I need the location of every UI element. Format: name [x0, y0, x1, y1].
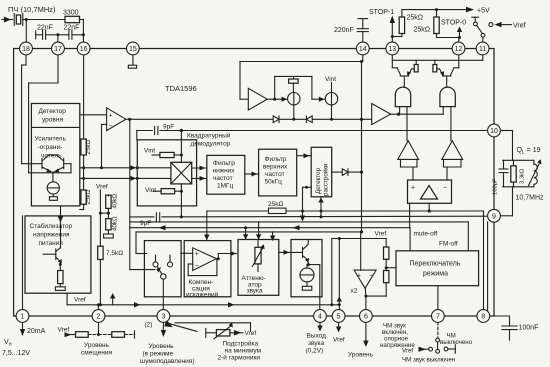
pin 3	[157, 310, 170, 323]
svg-text:FM-off: FM-off	[439, 241, 458, 248]
pin 8	[477, 310, 490, 323]
wire pin18 to limiter input	[25, 55, 27, 65]
feedback loop wire	[239, 62, 241, 100]
svg-text:13: 13	[388, 46, 396, 53]
second vertical near pin8	[487, 222, 489, 316]
svg-text:частот: частот	[265, 171, 285, 178]
attenuator feed line	[136, 231, 362, 233]
Vref loop line	[332, 238, 386, 240]
svg-text:12: 12	[455, 46, 463, 53]
Vref rail from stabilizer	[66, 293, 68, 305]
svg-text:5: 5	[337, 314, 341, 321]
svg-text:Vref: Vref	[245, 330, 257, 337]
resistor 25k upper	[83, 55, 85, 139]
svg-text:220nF: 220nF	[334, 27, 354, 34]
svg-text:TDA1596: TDA1596	[165, 84, 197, 93]
block output stage	[291, 240, 322, 297]
audio input into switch box	[136, 253, 147, 255]
svg-text:25kΩ: 25kΩ	[85, 190, 92, 205]
svg-text:на минимум: на минимум	[225, 348, 262, 355]
svg-text:8: 8	[481, 314, 485, 321]
block voltage stabilizer	[25, 216, 91, 293]
current source I3	[325, 93, 337, 105]
pin5 Vref arrow	[338, 322, 340, 328]
block high-pass filter 50kHz	[259, 149, 297, 196]
STOP-0 arrow	[458, 36, 461, 39]
compensation output	[217, 257, 220, 260]
comparator output	[428, 203, 430, 211]
svg-text:Квадратурный: Квадратурный	[187, 132, 231, 140]
svg-text:Детектор: Детектор	[39, 108, 67, 115]
svg-text:15: 15	[129, 46, 137, 53]
trim resistor above I2	[289, 79, 299, 83]
svg-text:Уровень: Уровень	[149, 343, 175, 350]
svg-text:100pF: 100pF	[493, 178, 499, 195]
svg-text:40kΩ: 40kΩ	[112, 216, 119, 231]
resistor 25k (STOP-0 pullup)	[435, 8, 438, 11]
svg-text:Vint: Vint	[144, 148, 155, 155]
svg-text:−: −	[109, 123, 113, 130]
pin10 rail	[137, 130, 488, 132]
pin 2	[92, 310, 105, 323]
wire tank to pin 9	[512, 187, 514, 216]
diode D1	[273, 116, 279, 123]
svg-text:14: 14	[359, 46, 367, 53]
svg-text:Уровень: Уровень	[84, 342, 110, 349]
diode D2	[305, 116, 307, 123]
wire resistor to pin16 column	[80, 19, 84, 21]
svg-text:уровня: уровня	[42, 117, 63, 124]
svg-text:6: 6	[364, 314, 368, 321]
svg-text:9pF: 9pF	[140, 220, 151, 227]
resistor 3300	[65, 16, 80, 22]
resistor in stabilizer	[59, 264, 61, 270]
pin 12	[452, 42, 465, 55]
transistor Q6	[302, 247, 304, 257]
amp A2	[372, 104, 391, 125]
svg-text:Vref: Vref	[96, 184, 108, 191]
svg-text:9pF: 9pF	[163, 124, 174, 131]
resistor Vint upper	[152, 154, 160, 156]
svg-text:Vint: Vint	[145, 187, 156, 194]
svg-text:+: +	[195, 251, 199, 258]
node A	[25, 18, 28, 21]
pin 5	[332, 310, 345, 323]
transistor Q4	[391, 55, 393, 68]
wire pin10 to tank	[500, 130, 512, 132]
svg-text:напряжения: напряжения	[33, 232, 70, 239]
potentiometer network	[205, 328, 207, 337]
pin 7	[432, 310, 445, 323]
tank top bar	[503, 159, 534, 161]
svg-text:25kΩ: 25kΩ	[85, 140, 92, 155]
svg-text:18: 18	[22, 46, 30, 53]
svg-text:11: 11	[479, 46, 486, 53]
resistor 25k (STOP-1 pullup)	[392, 36, 402, 38]
pin14 column	[362, 55, 364, 62]
pin 13	[386, 42, 399, 55]
pin 18	[20, 42, 33, 55]
gate G2	[440, 87, 455, 106]
emitter to pin 4	[308, 264, 319, 266]
FM line	[130, 221, 469, 223]
current source I4	[306, 265, 308, 268]
svg-text:100nF: 100nF	[519, 325, 539, 332]
svg-text:ПЧ (10,7MHz): ПЧ (10,7MHz)	[8, 5, 56, 14]
capacitor 22nF left	[35, 31, 37, 39]
svg-text:Подстройка: Подстройка	[223, 340, 259, 348]
svg-text:Vref: Vref	[333, 337, 345, 344]
input arrow	[4, 17, 11, 23]
svg-text:7,5kΩ: 7,5kΩ	[106, 250, 123, 257]
wire filter to node A	[23, 19, 27, 21]
svg-text:Выход: Выход	[307, 333, 327, 340]
Vref input terminal	[489, 23, 493, 27]
tank bottom bar	[503, 186, 534, 188]
current source I2	[288, 93, 300, 105]
ceramic filter X1	[13, 14, 15, 26]
stairs B1 to comparator	[400, 159, 402, 167]
svg-text:+: +	[357, 273, 361, 280]
block distortion compensation	[184, 241, 231, 297]
svg-text:2-й гармоники: 2-й гармоники	[218, 354, 261, 362]
demod outputs to LPF	[192, 167, 207, 169]
svg-text:+: +	[109, 113, 113, 120]
mute line	[130, 227, 410, 229]
svg-text:STOP-1: STOP-1	[369, 9, 394, 16]
mute drop to attenuator	[244, 226, 247, 229]
stairs B2 to comparator	[443, 159, 445, 167]
svg-text:Усилитель: Усилитель	[35, 136, 67, 143]
pin1 current arrow	[22, 322, 24, 333]
pin2 bias network	[98, 322, 100, 334]
svg-text:Vint: Vint	[325, 76, 336, 83]
block audio attenuator	[238, 240, 279, 296]
svg-text:питания: питания	[39, 240, 64, 247]
pin7 wire	[437, 286, 439, 310]
svg-text:шумоподавления): шумоподавления)	[140, 358, 195, 365]
svg-text:−: −	[195, 263, 199, 270]
svg-text:-ограни-: -ограни-	[38, 144, 63, 151]
pin 16	[77, 42, 90, 55]
svg-text:+5V: +5V	[477, 8, 490, 15]
svg-text:1МГц: 1МГц	[217, 183, 234, 190]
svg-text:7: 7	[436, 314, 440, 321]
svg-text:Vref: Vref	[375, 231, 387, 238]
resistor 3.3k	[513, 160, 515, 166]
amp x2	[354, 270, 376, 288]
pin 1	[16, 310, 29, 323]
svg-text:х2: х2	[351, 288, 358, 295]
svg-text:верхних: верхних	[263, 164, 288, 171]
svg-text:звука: звука	[308, 340, 325, 347]
block demodulator	[137, 140, 196, 206]
svg-text:(в режиме: (в режиме	[143, 351, 174, 358]
arrow LPF to HPF	[245, 173, 259, 175]
svg-text:Vref: Vref	[513, 23, 526, 30]
pin7 mode switch external	[437, 322, 439, 337]
svg-text:17: 17	[54, 46, 62, 53]
capacitor 100pF	[503, 160, 505, 169]
x2 input from audio line	[360, 232, 362, 270]
op-amp A1	[240, 98, 248, 100]
svg-text:22nF: 22nF	[37, 25, 53, 32]
svg-text:25kΩ: 25kΩ	[268, 201, 283, 208]
pin6 level arrow	[365, 322, 367, 343]
pin 6	[360, 310, 373, 323]
svg-text:10: 10	[490, 128, 498, 135]
rail to gates	[391, 113, 444, 115]
block level-detector + limiter	[31, 104, 79, 206]
STOP-1 arrow	[391, 18, 393, 37]
svg-text:−: −	[369, 273, 373, 280]
svg-text:10,7MHz: 10,7MHz	[516, 195, 545, 202]
svg-text:Стабилизатор: Стабилизатор	[30, 222, 73, 230]
svg-text:нижних: нижних	[213, 168, 236, 175]
resistor Vint lower	[153, 190, 161, 192]
wires limiter outputs to demodulator	[80, 167, 138, 169]
mixer X	[171, 162, 192, 184]
comparator block U3	[408, 180, 452, 203]
block low-pass filter 1MHz	[207, 155, 245, 194]
svg-text:Vref: Vref	[402, 348, 413, 355]
capacitor 9pF upper	[153, 128, 160, 133]
buffer triangle B2	[442, 141, 463, 160]
pin5 Vref riser	[338, 239, 340, 310]
pin 15	[126, 42, 139, 55]
diode rail	[130, 118, 372, 120]
pin 17	[52, 42, 65, 55]
block detuning detector (vertical text)	[311, 147, 332, 197]
svg-text:+: +	[411, 185, 415, 192]
svg-text:3,3kΩ: 3,3kΩ	[520, 168, 526, 184]
svg-text:40kΩ: 40kΩ	[112, 194, 119, 209]
node cap junction	[56, 33, 59, 36]
pot adjust link to pin 3	[164, 320, 173, 327]
differential pair Q1 Q2	[41, 158, 43, 168]
inductor variable	[533, 160, 535, 164]
+V cell rail from pin 11	[482, 55, 484, 60]
ground stub	[49, 197, 57, 201]
capacitor 22nF right	[58, 34, 69, 36]
svg-text:выключено: выключено	[440, 339, 473, 346]
svg-text:25kΩ: 25kΩ	[414, 27, 431, 34]
svg-text:звука: звука	[247, 288, 264, 295]
demod inputs to mixer	[137, 167, 171, 169]
rail A drop to compensation	[206, 217, 208, 240]
rail B to pin 9	[130, 215, 488, 218]
pin 11	[476, 42, 489, 55]
stubs to diode rail	[293, 105, 295, 119]
wire pin17 to limiter input	[57, 55, 59, 83]
block mute switch	[144, 241, 181, 297]
svg-text:Vref: Vref	[58, 327, 70, 334]
svg-text:20mA: 20mA	[27, 328, 46, 335]
detuning lower link	[303, 186, 312, 188]
pin4 audio out arrow	[319, 322, 321, 327]
svg-text:(2): (2)	[145, 322, 153, 329]
wire node A to resistor 3300	[26, 19, 65, 21]
rail A 25k	[207, 210, 484, 212]
FM drop to attenuator	[258, 222, 260, 239]
svg-text:mute-off: mute-off	[414, 231, 438, 238]
svg-text:Фильтр: Фильтр	[265, 156, 287, 163]
svg-text:(0,2V): (0,2V)	[306, 348, 324, 355]
pin 4	[314, 310, 327, 323]
block mode switch	[396, 251, 479, 286]
output node	[267, 98, 288, 100]
svg-text:Переключатель: Переключатель	[410, 261, 461, 268]
svg-text:смещения: смещения	[81, 350, 112, 357]
svg-text:Фильтр: Фильтр	[213, 160, 235, 167]
level detector comparator U2	[80, 114, 107, 116]
svg-text:режима: режима	[423, 271, 448, 278]
node limiter out	[126, 118, 130, 120]
pin 10	[488, 124, 501, 137]
limiter-out vertical	[129, 119, 131, 227]
svg-text:частот: частот	[213, 175, 233, 182]
pin 9	[488, 209, 501, 222]
attenuator to output stage	[279, 251, 303, 253]
gate G1	[395, 87, 410, 107]
svg-text:9: 9	[492, 214, 496, 221]
loop over current sources	[274, 76, 276, 99]
svg-text:2: 2	[97, 314, 101, 321]
IC outline TDA1596	[14, 49, 494, 317]
pin15 stub terminal	[132, 55, 134, 65]
svg-text:Детектор: Детектор	[315, 167, 322, 194]
svg-text:Vref: Vref	[74, 297, 86, 304]
transistor Q5	[458, 55, 460, 68]
svg-text:STOP-0: STOP-0	[441, 20, 466, 27]
svg-text:16: 16	[80, 46, 88, 53]
pin 14	[356, 42, 369, 55]
wire cap junction to pin 17	[57, 35, 59, 42]
capacitor 220nF	[362, 32, 364, 43]
diode to pin14 column	[332, 171, 343, 173]
svg-text:7,5...12V: 7,5...12V	[2, 350, 30, 357]
resistor 25k lower	[81, 190, 86, 204]
arrow HPF to detuning detector	[297, 155, 312, 157]
switch to +5V at pin 11	[472, 16, 479, 18]
transistor Q3	[43, 253, 56, 255]
svg-text:3300: 3300	[63, 10, 79, 17]
capacitor 9pF lower	[155, 214, 162, 219]
svg-text:Уровень: Уровень	[348, 352, 374, 359]
svg-text:1: 1	[21, 314, 25, 321]
wire limiter to stabilizer	[60, 206, 62, 248]
svg-text:искажений: искажений	[186, 290, 219, 298]
pin2 stub to Vref rail	[98, 305, 100, 310]
mixer column vertical	[180, 131, 182, 163]
wire pin1 to stabilizer	[22, 216, 24, 310]
wire node A to pin 18	[25, 20, 27, 43]
svg-text:3: 3	[161, 314, 165, 321]
+5V rail	[402, 9, 471, 11]
resistor 7.5k	[99, 213, 101, 246]
svg-text:50кГц: 50кГц	[265, 179, 283, 186]
svg-text:расстройки: расстройки	[323, 163, 330, 196]
mode box link	[386, 267, 396, 269]
svg-text:ЧМ звук выключен: ЧМ звук выключен	[402, 357, 455, 364]
Vref rail arrows	[112, 296, 114, 305]
svg-text:−: −	[443, 185, 447, 192]
svg-text:25kΩ: 25kΩ	[407, 15, 424, 22]
detuning bottom arrow to rail	[320, 197, 322, 217]
capacitor 100nF	[502, 325, 517, 327]
svg-text:4: 4	[318, 314, 322, 321]
buffer triangle B1	[398, 141, 419, 160]
current source I1	[47, 182, 59, 194]
wire rail A to pin 8	[483, 211, 485, 310]
